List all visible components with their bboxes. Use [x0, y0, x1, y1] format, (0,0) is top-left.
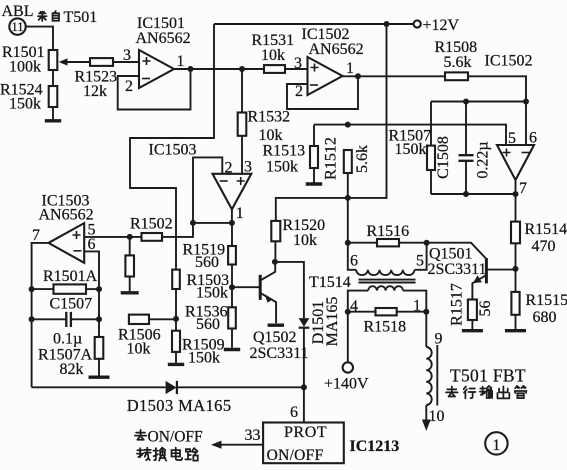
svg-text:MA165: MA165	[324, 297, 341, 347]
ground under R1524	[45, 119, 61, 122]
ground under resistor	[121, 291, 139, 294]
op-amp IC1502	[308, 57, 343, 95]
svg-text:9: 9	[435, 331, 443, 348]
wire pin1 node to FBT	[425, 312, 427, 347]
wire R1506 to R1503 column	[149, 318, 176, 320]
svg-text:560: 560	[196, 316, 220, 333]
wire base node to Q1501	[427, 243, 486, 259]
svg-text:Q1501: Q1501	[429, 246, 473, 263]
junction R1501A right	[96, 286, 102, 292]
wire +12V branch down right	[276, 24, 387, 221]
svg-text:+12V: +12V	[423, 17, 460, 34]
wire R1517 to ground	[471, 320, 473, 329]
svg-text:R1518: R1518	[364, 319, 407, 336]
wire R1523 to IC1501 pin 3	[113, 61, 139, 63]
svg-text:10k: 10k	[261, 47, 285, 64]
svg-text:ABL: ABL	[2, 3, 34, 20]
wire output 7 down	[32, 243, 49, 387]
svg-text:7: 7	[32, 227, 40, 244]
wire feedback rail top	[431, 101, 526, 103]
svg-text:6: 6	[290, 404, 298, 421]
svg-text:Q1502: Q1502	[253, 329, 297, 346]
ground under R1517	[462, 329, 483, 332]
wire pin 33 arrow	[221, 444, 263, 446]
junction C1507 left	[29, 316, 35, 322]
svg-text:R1517: R1517	[449, 283, 466, 326]
svg-text:10: 10	[429, 408, 445, 425]
svg-text:5: 5	[416, 253, 424, 270]
wire output to R1519	[231, 223, 233, 246]
junction +12V rail	[384, 21, 390, 27]
svg-text:3: 3	[294, 55, 302, 72]
svg-text:100k: 100k	[9, 59, 41, 76]
resistor R1501A row left junction	[29, 286, 35, 292]
junction R1512 bottom	[345, 195, 351, 201]
svg-text:R1513: R1513	[263, 143, 306, 160]
wire D1503 to IC1213 node	[177, 386, 304, 388]
wire +12V zigzag to R1502/R1503 node	[130, 24, 214, 270]
wire R1508 to pin 6	[468, 76, 526, 145]
resistor R1507 branch	[430, 102, 432, 146]
svg-text:2: 2	[225, 160, 233, 177]
junction R1532 tap	[239, 66, 245, 72]
wire R1507A to ground	[98, 359, 100, 376]
svg-text:10k: 10k	[127, 341, 151, 358]
svg-text:150k: 150k	[395, 141, 427, 158]
wire IC1502 feedback pin2 to output	[287, 76, 358, 109]
wire feedback rail bottom	[431, 193, 516, 195]
junction Q1502 base	[229, 284, 235, 290]
svg-text:T1514: T1514	[309, 274, 351, 291]
resistor R1502	[142, 233, 163, 241]
svg-text:2: 2	[125, 78, 133, 95]
svg-text:2SC3311: 2SC3311	[250, 345, 309, 362]
svg-text:3: 3	[244, 159, 252, 176]
svg-text:150k: 150k	[196, 285, 228, 302]
wire R1515 to ground	[515, 315, 517, 329]
wire output row	[193, 222, 232, 224]
svg-text:2: 2	[295, 83, 303, 100]
svg-text:470: 470	[532, 238, 556, 255]
wire IC1501 output	[174, 68, 264, 70]
resistor R1506	[129, 315, 149, 324]
wire D1503 line	[32, 386, 166, 388]
svg-text:82k: 82k	[60, 361, 84, 378]
svg-text:R1501A: R1501A	[43, 268, 98, 285]
page marker circled 1	[485, 432, 507, 454]
flyback transformer T501 winding	[426, 347, 431, 405]
wire IC1503 output	[231, 209, 233, 223]
wire D1501 cathode down to IC1213	[303, 328, 305, 422]
ground under R1513	[306, 182, 322, 185]
wire R1520 to collector node	[274, 241, 276, 262]
T1514 primary winding	[348, 243, 356, 270]
potentiometer R1501	[49, 50, 58, 70]
svg-text:IC1503: IC1503	[149, 142, 197, 159]
label 去行输出管 (to horizontal output transistor)	[446, 387, 458, 397]
svg-text:5.6k: 5.6k	[444, 54, 472, 71]
svg-text:AN6562: AN6562	[309, 41, 364, 58]
svg-text:1: 1	[346, 60, 354, 77]
svg-text:5.6k: 5.6k	[354, 145, 371, 173]
resistor R1536	[228, 307, 236, 328]
svg-text:56: 56	[477, 301, 494, 317]
svg-text:0.22µ: 0.22µ	[475, 141, 492, 178]
wire R1513 to ground	[313, 168, 315, 183]
junction D1503 line	[301, 384, 307, 390]
wire R1532 to IC1503 pin 3	[241, 136, 243, 174]
op-amp IC1501	[139, 50, 174, 88]
ground under R1507A	[89, 376, 110, 379]
wire R1536 to ground	[231, 329, 233, 348]
resistor R1515	[511, 292, 519, 315]
resistor R1519	[228, 246, 236, 265]
junction Q1501 base node	[424, 240, 430, 246]
svg-text:R1502: R1502	[130, 216, 173, 233]
wire R1501 to R1524	[52, 70, 54, 86]
svg-text:PROT: PROT	[284, 424, 327, 441]
wire R1513 branch	[313, 125, 315, 146]
svg-text:R1515: R1515	[526, 292, 567, 309]
svg-text:150k: 150k	[9, 96, 41, 113]
resistor R1509	[172, 331, 180, 352]
junction T1514 pin6	[345, 240, 351, 246]
svg-text:680: 680	[533, 309, 557, 326]
ground under R1509	[168, 363, 184, 366]
svg-text:ON/OFF: ON/OFF	[267, 447, 324, 464]
junction R1506/R1509	[173, 316, 179, 322]
transistor Q1501	[485, 258, 488, 283]
resistor R1532 top wire	[241, 69, 243, 113]
wire IC1503 pin2 wrap to output	[193, 157, 222, 223]
wire pin4 node to +140V	[347, 312, 349, 363]
resistor R1507	[427, 146, 435, 170]
svg-text:R1516: R1516	[367, 223, 410, 240]
ground under R1536	[224, 348, 240, 351]
svg-text:R1512: R1512	[323, 137, 340, 180]
power terminal +140V	[343, 362, 353, 372]
svg-text:11: 11	[11, 20, 23, 34]
svg-text:R1532: R1532	[248, 109, 291, 126]
R1501 wiper arrow	[67, 61, 90, 63]
wire IC1502 output to R1508	[343, 75, 446, 77]
svg-text:5: 5	[508, 130, 516, 147]
resistor R1513	[310, 146, 318, 168]
resistor below R1502 left	[129, 237, 131, 256]
svg-text:IC1502: IC1502	[485, 53, 533, 70]
diode D1501 MA165	[299, 318, 310, 327]
resistor R1523	[90, 58, 113, 66]
wire R1524 to ground	[52, 107, 54, 120]
transistor Q1502 2SC3311	[232, 286, 260, 288]
wire R1516 row	[348, 242, 377, 244]
wire output to R1502 row	[162, 223, 193, 237]
svg-text:C1508: C1508	[435, 136, 452, 179]
junction C1508 bottom	[463, 191, 469, 197]
svg-text:1: 1	[177, 53, 185, 70]
wire collector node to D1501	[275, 262, 304, 318]
svg-text:R1514: R1514	[525, 221, 567, 238]
svg-text:AN6562: AN6562	[39, 207, 94, 224]
resistor R1514	[511, 222, 520, 244]
resistor R1524	[49, 86, 58, 107]
svg-text:AN6562: AN6562	[136, 30, 191, 47]
wire R1519 to base node	[231, 265, 233, 288]
svg-text:IC1213: IC1213	[350, 438, 400, 455]
junction collector node	[513, 266, 519, 272]
resistor R1532	[238, 113, 247, 136]
junction C1507 right	[96, 316, 102, 322]
wire pin 5 line	[314, 125, 506, 145]
svg-text:1: 1	[236, 205, 244, 222]
svg-text:T501 FBT: T501 FBT	[450, 366, 526, 386]
svg-text:C1507: C1507	[50, 296, 93, 313]
net label 来自T501 (from T501)	[38, 12, 47, 21]
junction output left	[190, 220, 196, 226]
resistor R1507A	[98, 319, 100, 337]
svg-text:ON/OFF: ON/OFF	[148, 429, 204, 446]
svg-text:10k: 10k	[293, 232, 317, 249]
wire R1516 to base node	[399, 242, 427, 244]
svg-text:6: 6	[529, 130, 537, 147]
junction pin1 node	[423, 309, 429, 315]
wire R1518 right	[397, 311, 427, 313]
wire R1503 to junction	[175, 289, 177, 319]
svg-text:6: 6	[350, 253, 358, 270]
svg-text:+140V: +140V	[324, 376, 369, 393]
svg-text:33: 33	[245, 427, 261, 444]
junction R1512 top	[345, 122, 351, 128]
T501 core	[436, 345, 438, 406]
junction output	[229, 220, 235, 226]
wire pin6 stub	[84, 251, 99, 319]
resistor R1518	[376, 308, 397, 315]
op-amp IC1503 second half	[49, 223, 85, 263]
wire FBT output arrow	[425, 405, 427, 421]
junction IC1501 output	[188, 66, 194, 72]
power terminal +12V	[414, 20, 421, 27]
junction pin7 rail	[513, 191, 519, 197]
svg-text:7: 7	[519, 180, 527, 197]
wire pin5 to R1502	[84, 236, 141, 238]
junction C1508 top	[463, 99, 469, 105]
svg-text:10k: 10k	[259, 127, 283, 144]
wire R1514 to collector node	[515, 243, 517, 292]
ground under Q1502 emitter	[268, 324, 284, 327]
IC1213 PROT/ON-OFF block	[263, 423, 344, 464]
resistor R1501A	[32, 288, 54, 290]
resistor R1508	[445, 72, 468, 80]
junction R1502 left	[127, 234, 133, 240]
resistor R1520	[271, 221, 280, 241]
resistor R1531	[264, 65, 285, 73]
label 去ON/OFF 转换电路 (to ON/OFF switching circuit)	[135, 430, 146, 440]
wire to ground	[129, 277, 131, 292]
resistor R1518 row	[348, 311, 376, 313]
wire R1531 to IC1502 pin 3	[285, 68, 308, 70]
junction pin6 node	[523, 99, 529, 105]
junction Q1502 collector node	[272, 259, 278, 265]
wire pin7 to R1514	[515, 180, 517, 222]
svg-text:150k: 150k	[266, 159, 298, 176]
wire bias node down to T1514 pin 6	[347, 198, 349, 243]
wire R1507 to bottom rail	[430, 170, 432, 194]
junction IC1502 output	[355, 73, 361, 79]
resistor R1503	[172, 270, 180, 289]
wire R1509 to ground	[175, 352, 177, 363]
wire R1512 bottom	[347, 173, 349, 198]
op-amp IC1503 first half	[213, 174, 252, 210]
junction pin4 node	[345, 309, 351, 315]
svg-text:150k: 150k	[188, 350, 220, 367]
resistor R1512	[344, 150, 352, 173]
capacitor C1507	[32, 318, 66, 320]
resistor R1516	[377, 239, 399, 246]
svg-text:12k: 12k	[83, 83, 107, 100]
svg-text:D1503 MA165: D1503 MA165	[127, 396, 232, 415]
resistor R1517	[468, 300, 477, 321]
svg-text:0.1µ: 0.1µ	[53, 331, 82, 348]
T1514 core	[359, 280, 416, 283]
svg-text:2SC3311: 2SC3311	[428, 261, 487, 278]
T1514 secondary winding	[348, 291, 368, 312]
svg-text:1: 1	[492, 437, 500, 454]
svg-text:560: 560	[195, 254, 219, 271]
wire IC1501 feedback pin2 to output	[118, 69, 191, 110]
diode D1503 MA165	[166, 381, 177, 394]
svg-text:3: 3	[123, 47, 131, 64]
op-amp IC1502 second half	[497, 145, 534, 180]
ground under R1515	[505, 329, 526, 332]
capacitor C1508	[465, 102, 467, 156]
wire +12V top rail	[214, 23, 414, 25]
svg-text:T501: T501	[64, 9, 98, 26]
wire ABL to R1501	[26, 27, 53, 50]
node ABL terminal 11	[9, 18, 25, 34]
